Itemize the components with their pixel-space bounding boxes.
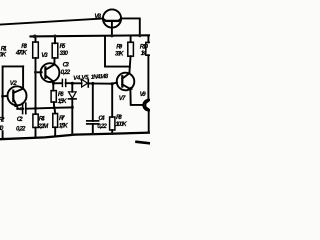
resistor R5 — [52, 36, 58, 58]
svg-text:V3: V3 — [41, 52, 48, 59]
svg-text:100K: 100K — [115, 121, 127, 128]
node signal-R3R4 — [34, 107, 37, 110]
svg-text:R6: R6 — [58, 91, 64, 98]
svg-text:R8: R8 — [116, 114, 122, 121]
svg-text:1N4148: 1N4148 — [91, 73, 109, 81]
svg-text:2,2M: 2,2M — [37, 123, 49, 130]
wire signal from C2 — [17, 107, 72, 109]
svg-text:0,22: 0,22 — [16, 126, 26, 133]
node V2 base — [1, 95, 4, 98]
svg-text:C2: C2 — [17, 116, 23, 123]
resistor R8 — [110, 84, 115, 134]
svg-text:0,22: 0,22 — [61, 69, 71, 76]
svg-text:R2: R2 — [0, 117, 5, 124]
node rail junctions — [33, 34, 150, 136]
wire C3 right — [66, 82, 73, 84]
svg-text:1,5K: 1,5K — [59, 122, 69, 129]
diode V4 — [69, 83, 77, 134]
node C4 top — [91, 82, 94, 85]
node signal-V4 — [71, 106, 74, 109]
resistor R3 — [33, 36, 39, 108]
resistor R7 — [53, 108, 58, 135]
resistor R4 — [33, 108, 38, 136]
wire V2 base — [3, 95, 8, 97]
svg-text:470K: 470K — [15, 49, 28, 56]
terminal dash bottom right — [137, 142, 151, 144]
capacitor C2 — [23, 103, 26, 113]
wire V3 emitter — [52, 81, 54, 90]
svg-text:70K: 70K — [0, 51, 7, 58]
svg-text:R4: R4 — [39, 115, 45, 122]
svg-text:V2: V2 — [10, 80, 18, 87]
svg-text:1K: 1K — [141, 50, 147, 57]
capacitor C4 — [87, 84, 99, 135]
svg-text:C4: C4 — [98, 115, 105, 122]
node R6-R7 — [53, 106, 56, 109]
wire V9 emitter down — [148, 110, 150, 132]
transistor V8 — [103, 9, 121, 36]
svg-text:V4,V5: V4,V5 — [73, 74, 89, 82]
transistor V2 — [8, 86, 27, 107]
wire supply rail — [31, 35, 151, 36]
wire diode row — [72, 83, 117, 84]
node V4 top — [71, 82, 74, 85]
wire V8 collector — [121, 18, 140, 35]
transistor V9 — [143, 100, 154, 111]
svg-text:V8: V8 — [94, 13, 101, 20]
resistor R2 — [2, 131, 4, 139]
svg-text:33K: 33K — [115, 50, 124, 57]
resistor R10 — [146, 36, 151, 100]
resistor R9 — [128, 36, 134, 73]
svg-text:C3: C3 — [63, 61, 70, 68]
wire V7 emitter to V9 base — [130, 89, 143, 105]
node V2 emitter — [19, 107, 22, 110]
wire V3 collector — [53, 58, 55, 64]
wire ground rail — [0, 133, 150, 140]
svg-text:V7: V7 — [119, 95, 126, 102]
svg-text:1,5K: 1,5K — [58, 98, 68, 105]
wire V3 base — [36, 71, 42, 73]
capacitor C3 — [62, 79, 65, 86]
svg-text:330: 330 — [60, 50, 69, 57]
transistor V7 — [117, 73, 135, 91]
svg-text:V9: V9 — [140, 91, 147, 98]
wire rail to V7 collector — [105, 36, 130, 67]
wire V2 collector loop — [3, 66, 24, 118]
node R8 top — [111, 82, 114, 85]
resistor R6 — [51, 91, 56, 108]
wire C3 left — [53, 82, 62, 84]
svg-text:R7: R7 — [59, 115, 65, 122]
transistor V3 — [41, 63, 60, 82]
wire top input — [0, 19, 103, 25]
diode V5 — [82, 79, 89, 87]
node V3 emitter C3 — [52, 82, 55, 85]
svg-text:0,22: 0,22 — [97, 123, 107, 130]
